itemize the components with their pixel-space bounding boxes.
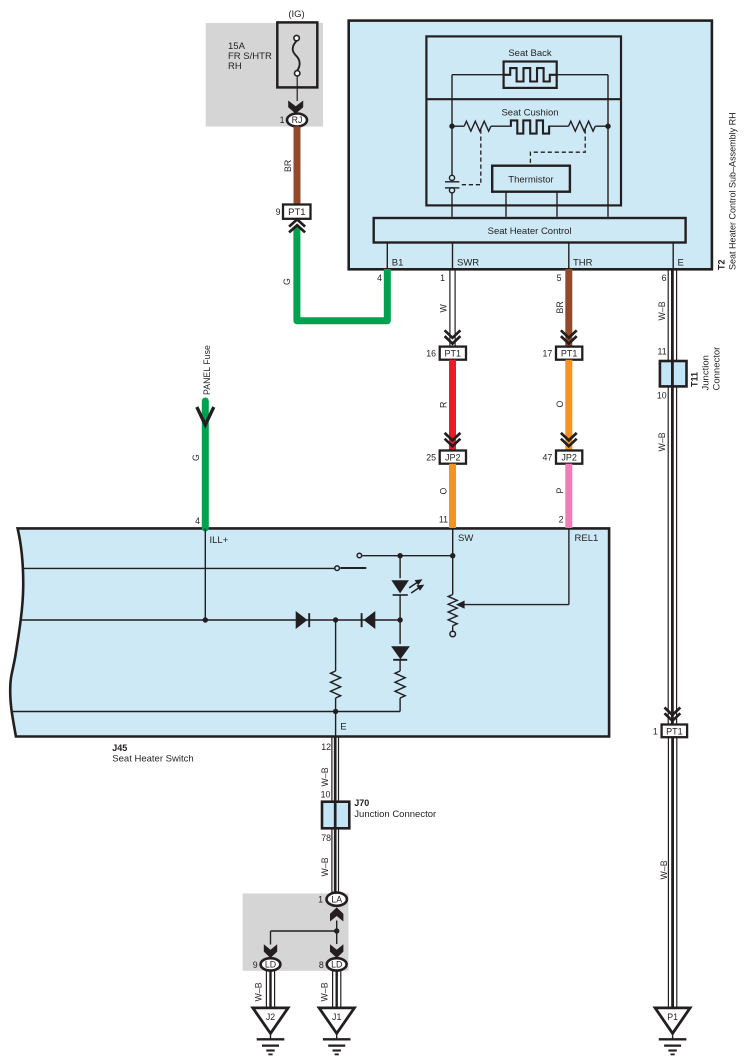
svg-text:12: 12 — [321, 742, 331, 752]
svg-text:SW: SW — [458, 533, 473, 544]
svg-text:Junction: Junction — [701, 355, 712, 390]
svg-text:W–B: W–B — [320, 767, 330, 786]
svg-text:P1: P1 — [667, 1012, 678, 1022]
svg-text:O: O — [439, 488, 449, 495]
svg-text:PT1: PT1 — [666, 726, 683, 736]
svg-text:O: O — [555, 401, 565, 408]
svg-text:78: 78 — [321, 833, 331, 843]
svg-text:Connector: Connector — [712, 347, 723, 391]
svg-text:G: G — [282, 278, 292, 285]
svg-text:10: 10 — [657, 391, 667, 401]
svg-text:P: P — [555, 488, 565, 494]
svg-text:T11: T11 — [690, 372, 700, 387]
svg-text:J70: J70 — [354, 798, 369, 808]
svg-text:REL1: REL1 — [575, 533, 599, 544]
svg-text:5: 5 — [557, 273, 562, 283]
svg-text:Seat Heater Control Sub–Assemb: Seat Heater Control Sub–Assembly RH — [728, 112, 738, 270]
svg-text:JP2: JP2 — [445, 453, 461, 463]
svg-text:47: 47 — [543, 453, 553, 463]
svg-text:E: E — [678, 258, 684, 269]
svg-text:PANEL Fuse: PANEL Fuse — [202, 345, 212, 395]
svg-text:1: 1 — [280, 115, 285, 125]
svg-text:W–B: W–B — [320, 982, 330, 1001]
svg-text:16: 16 — [426, 349, 436, 359]
svg-text:R: R — [439, 402, 449, 408]
svg-text:Thermistor: Thermistor — [508, 175, 553, 186]
svg-text:E: E — [340, 722, 346, 733]
svg-text:8: 8 — [319, 960, 324, 970]
svg-text:Seat Back: Seat Back — [508, 48, 552, 59]
svg-text:T2: T2 — [717, 259, 727, 270]
svg-text:SWR: SWR — [457, 258, 479, 269]
svg-text:2: 2 — [559, 515, 564, 525]
svg-text:G: G — [191, 454, 201, 461]
svg-text:Seat Heater Switch: Seat Heater Switch — [112, 753, 193, 764]
svg-text:6: 6 — [662, 273, 667, 283]
svg-text:10: 10 — [321, 789, 331, 799]
svg-text:W–B: W–B — [320, 857, 330, 876]
svg-text:LA: LA — [331, 894, 342, 904]
svg-text:4: 4 — [377, 273, 382, 283]
svg-text:THR: THR — [573, 258, 593, 269]
svg-text:JP2: JP2 — [561, 453, 577, 463]
svg-text:B1: B1 — [392, 258, 404, 269]
svg-text:ILL+: ILL+ — [210, 535, 229, 546]
svg-text:1: 1 — [440, 273, 445, 283]
svg-text:W–B: W–B — [659, 860, 669, 879]
svg-text:W–B: W–B — [657, 432, 667, 451]
svg-text:J45: J45 — [112, 743, 127, 753]
svg-text:W: W — [439, 304, 449, 313]
svg-text:4: 4 — [195, 516, 200, 526]
svg-text:BR: BR — [555, 301, 565, 313]
svg-text:Seat Cushion: Seat Cushion — [501, 108, 558, 119]
svg-text:Junction Connector: Junction Connector — [354, 809, 436, 820]
svg-text:PT1: PT1 — [561, 349, 578, 359]
svg-text:RJ: RJ — [292, 115, 303, 125]
svg-text:25: 25 — [426, 453, 436, 463]
svg-text:(IG): (IG) — [288, 9, 304, 20]
svg-text:Seat Heater Control: Seat Heater Control — [488, 226, 572, 237]
svg-text:17: 17 — [543, 349, 553, 359]
svg-text:1: 1 — [653, 726, 658, 736]
svg-text:W–B: W–B — [254, 982, 264, 1001]
svg-text:LD: LD — [331, 960, 342, 970]
svg-text:PT1: PT1 — [288, 207, 305, 218]
svg-text:J2: J2 — [266, 1012, 275, 1022]
svg-text:J1: J1 — [332, 1012, 341, 1022]
svg-text:11: 11 — [439, 515, 448, 525]
svg-text:9: 9 — [253, 960, 258, 970]
svg-text:1: 1 — [318, 894, 323, 904]
svg-text:BR: BR — [283, 160, 293, 172]
svg-text:PT1: PT1 — [445, 349, 462, 359]
svg-text:RH: RH — [228, 61, 242, 72]
svg-text:W–B: W–B — [657, 301, 667, 320]
svg-text:9: 9 — [276, 207, 281, 217]
svg-text:LD: LD — [265, 960, 276, 970]
svg-text:11: 11 — [658, 346, 667, 356]
